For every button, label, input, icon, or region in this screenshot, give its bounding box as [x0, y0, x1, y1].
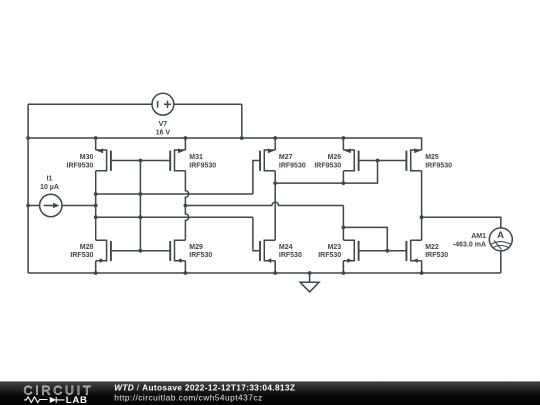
svg-text:AM1: AM1: [471, 233, 486, 240]
svg-text:http://circuitlab.com/cwh54upt: http://circuitlab.com/cwh54upt437cz: [114, 393, 262, 403]
svg-text:M29: M29: [189, 244, 203, 251]
svg-text:V7: V7: [159, 121, 168, 128]
svg-text:M23: M23: [328, 244, 342, 251]
svg-text:M22: M22: [425, 244, 439, 251]
svg-text:IRF9530: IRF9530: [67, 162, 94, 169]
svg-text:M28: M28: [80, 244, 94, 251]
svg-text:LAB: LAB: [66, 395, 88, 405]
svg-text:IRF530: IRF530: [189, 252, 212, 259]
svg-text:IRF9530: IRF9530: [279, 162, 306, 169]
svg-text:M26: M26: [328, 154, 342, 161]
svg-text:IRF530: IRF530: [318, 252, 341, 259]
svg-text:M30: M30: [80, 154, 94, 161]
svg-text:IRF9530: IRF9530: [314, 162, 341, 169]
svg-text:IRF530: IRF530: [70, 252, 93, 259]
svg-text:10 µA: 10 µA: [40, 184, 59, 191]
svg-text:M24: M24: [279, 244, 293, 251]
svg-text:M25: M25: [425, 154, 439, 161]
svg-text:16 V: 16 V: [156, 129, 171, 136]
svg-text:-463.0 mA: -463.0 mA: [453, 242, 486, 249]
svg-text:I1: I1: [47, 176, 53, 183]
svg-text:IRF530: IRF530: [425, 252, 448, 259]
svg-text:A: A: [497, 230, 504, 241]
svg-text:WTD / Autosave 2022-12-12T17:3: WTD / Autosave 2022-12-12T17:33:04.813Z: [114, 383, 295, 393]
svg-text:M27: M27: [279, 154, 293, 161]
svg-text:M31: M31: [189, 154, 203, 161]
svg-text:IRF530: IRF530: [279, 252, 302, 259]
svg-text:IRF9530: IRF9530: [189, 162, 216, 169]
svg-text:IRF9530: IRF9530: [425, 162, 452, 169]
